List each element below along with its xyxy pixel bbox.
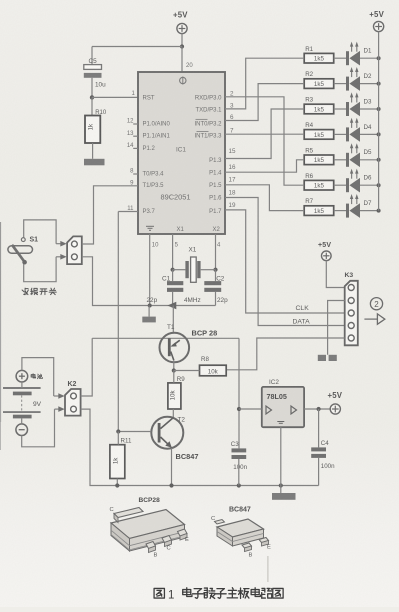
capacitor C4 100n bbox=[311, 440, 335, 470]
wire P3.1 to R1 bbox=[225, 58, 304, 109]
node rail R11 bbox=[115, 483, 119, 487]
resistor R5 1k5 bbox=[304, 147, 334, 164]
wire bbox=[318, 458, 320, 486]
resistor R3 1k5 bbox=[304, 97, 334, 114]
node bbox=[171, 268, 175, 272]
node rail D2 bbox=[377, 82, 381, 86]
package drawing BCP28 (SOT223) bbox=[110, 497, 190, 559]
resistor R2 1k5 bbox=[304, 71, 334, 88]
wire bbox=[92, 46, 182, 48]
LED D2 bbox=[346, 67, 372, 91]
wire bbox=[334, 210, 346, 212]
label battery (dian chi) bbox=[31, 374, 42, 379]
value 22p (C2) bbox=[217, 297, 228, 304]
pin 4 label bbox=[217, 243, 221, 249]
plug arrow K1 pin1 bbox=[56, 241, 67, 247]
wire pin4 bbox=[215, 234, 217, 270]
battery dashed link bbox=[21, 395, 23, 411]
wire bbox=[117, 432, 119, 445]
capacitor C1 bbox=[162, 275, 183, 292]
pin 7 label bbox=[230, 128, 234, 135]
node rail D1 bbox=[377, 56, 381, 60]
caption figure 1 bbox=[154, 588, 283, 602]
wire battery+ to K2 bbox=[22, 358, 54, 396]
wire bbox=[91, 78, 93, 98]
plug arrow K2 pin2 bbox=[55, 406, 65, 412]
wire pin10 bbox=[149, 234, 151, 306]
battery cell 1 bbox=[3, 388, 41, 395]
transistor T2 BC847 bbox=[151, 416, 198, 461]
off-page connector 2 bbox=[370, 298, 382, 310]
wire bbox=[92, 143, 94, 159]
node bbox=[172, 368, 176, 372]
resistor R4 1k5 bbox=[304, 122, 334, 139]
scan noise overlay bbox=[0, 0, 1, 1]
+5V supply symbol (top centre) bbox=[173, 10, 188, 33]
wire bbox=[91, 47, 93, 65]
wire P3.3 to R4 bbox=[225, 133, 304, 135]
wire bbox=[360, 57, 379, 59]
wire bbox=[24, 257, 56, 282]
node rail D5 bbox=[377, 158, 381, 162]
wire P1.6 DATA to K3 bbox=[225, 198, 345, 326]
wire bbox=[172, 306, 174, 334]
wire bbox=[239, 408, 262, 410]
wire bbox=[173, 360, 175, 370]
node rail IC2 bbox=[279, 483, 283, 487]
switch S1 label bbox=[30, 236, 39, 243]
battery cell 2 bbox=[3, 412, 41, 418]
+5V supply symbol (IC2 output) bbox=[328, 391, 343, 414]
node rail D6 bbox=[377, 183, 381, 187]
battery 9V label bbox=[33, 401, 42, 408]
transistor T1 BCP28 bbox=[160, 324, 218, 362]
wire P1.4 to R5 bbox=[225, 160, 304, 172]
resistor R1 1k5 bbox=[304, 46, 334, 63]
resistor R8 10k bbox=[200, 356, 227, 376]
LED D5 bbox=[346, 143, 372, 167]
LED D6 bbox=[346, 169, 372, 193]
value 4MHz (X1) bbox=[184, 297, 201, 304]
pin 20 label bbox=[186, 63, 193, 69]
op-amp, microcontroller U/IC1 89C2051 body bbox=[138, 72, 225, 234]
node bbox=[317, 407, 321, 411]
resistor R10 bbox=[85, 110, 107, 143]
pin 17 label bbox=[229, 177, 237, 184]
wire P1.5 to R7 bbox=[225, 185, 304, 211]
wire pin1 RST bbox=[92, 96, 138, 98]
wire bbox=[360, 210, 379, 212]
wire bbox=[181, 33, 183, 46]
wire pin20 bbox=[181, 47, 183, 73]
wire bbox=[334, 108, 346, 110]
wire bbox=[334, 184, 346, 186]
wire bbox=[172, 409, 174, 417]
switch S1 mercury tube bbox=[8, 246, 33, 253]
capacitor C3 100n bbox=[231, 441, 248, 471]
node rail D4 bbox=[377, 132, 381, 136]
node rail D7 bbox=[377, 209, 381, 213]
pin 2 label bbox=[230, 90, 234, 97]
wire T2 base bbox=[118, 431, 151, 433]
regulator IC2 78L05 bbox=[262, 379, 304, 427]
wire bbox=[173, 269, 186, 271]
wire T1 base row bbox=[92, 337, 239, 339]
plug arrow K2 pin1 bbox=[54, 393, 65, 399]
node bbox=[116, 429, 120, 433]
LED D1 bbox=[346, 42, 372, 66]
wire battery- to K2 bbox=[22, 409, 55, 447]
wire P3.7 to T2 base vertical bbox=[118, 212, 138, 432]
LED D7 bbox=[346, 194, 372, 218]
scan artifact line bbox=[267, 556, 269, 582]
DATA label bbox=[293, 318, 311, 325]
pin 10 label bbox=[152, 243, 159, 249]
connector K2 bbox=[65, 381, 81, 416]
pin 15 label bbox=[229, 148, 237, 155]
resistor R11 1k bbox=[110, 438, 132, 479]
wire K1 pin1 to P3.5 bbox=[82, 186, 138, 244]
wire bbox=[215, 270, 217, 281]
wire bbox=[21, 382, 23, 388]
+5V supply symbol (top right) bbox=[369, 10, 384, 31]
wire bbox=[360, 159, 379, 161]
+5V supply symbol (K3) bbox=[318, 242, 331, 260]
scan edge artifact left bbox=[0, 222, 1, 450]
wire pin5 bbox=[172, 234, 174, 270]
resistor R6 1k5 bbox=[304, 173, 334, 190]
wire bbox=[24, 220, 56, 244]
node (C1 gnd) bbox=[167, 302, 176, 310]
wire bbox=[326, 261, 344, 288]
ground (crystal row) bbox=[142, 306, 156, 323]
IC1 left pin stubs 12/13/14/8 + numbers bbox=[127, 119, 138, 212]
wire bbox=[238, 459, 240, 486]
ground (below rail) bbox=[272, 486, 296, 500]
wire bbox=[116, 479, 118, 486]
node bbox=[148, 304, 152, 308]
wire +5V LED rail bbox=[378, 32, 380, 211]
node rail D3 bbox=[377, 107, 381, 111]
battery plus terminal bbox=[16, 370, 28, 382]
wire T1 collector to IC2 bbox=[238, 338, 240, 448]
ground (K3) bbox=[318, 355, 337, 361]
wire bbox=[360, 83, 379, 85]
wire bbox=[334, 57, 346, 59]
pin 19 label bbox=[229, 202, 237, 209]
wire bbox=[174, 370, 200, 372]
wire P1.7 CLK to K3 bbox=[225, 210, 345, 313]
wire K3 gnd bbox=[328, 301, 345, 355]
off-page arrow bbox=[364, 314, 384, 324]
wire K3 pin5 to R8 bbox=[226, 338, 345, 370]
ground (below R10) bbox=[84, 159, 105, 166]
wire K2 pin1 to T1 bbox=[81, 338, 93, 396]
wire K1 pin2 to gnd row bbox=[82, 257, 216, 306]
resistor R7 1k5 bbox=[304, 198, 334, 215]
node rail C3 bbox=[237, 483, 241, 487]
wire bbox=[334, 159, 346, 161]
node junction C5/pin20 bbox=[180, 44, 184, 48]
wire P3.2 to R2 bbox=[225, 84, 304, 121]
switch S1 pivot bbox=[21, 238, 25, 242]
value 22p (C1) bbox=[147, 297, 158, 304]
pin 6 label bbox=[230, 114, 234, 121]
wire bbox=[173, 371, 175, 383]
node bbox=[237, 407, 241, 411]
battery minus terminal bbox=[16, 424, 28, 436]
wire bbox=[91, 97, 93, 115]
wire bbox=[360, 108, 379, 110]
plug arrow K1 pin2 bbox=[56, 254, 67, 260]
switch S1 lever bbox=[12, 245, 27, 265]
LED D4 bbox=[346, 118, 372, 142]
wire T2 emitter bbox=[171, 448, 173, 485]
pin 18 label bbox=[229, 189, 237, 196]
pin 5 label bbox=[175, 243, 179, 249]
wire bbox=[21, 418, 23, 424]
capacitor C5 bbox=[84, 58, 106, 89]
wire bbox=[172, 270, 174, 281]
crystal X1 bbox=[185, 247, 200, 283]
wire K2 pin2 to gnd rail bbox=[81, 409, 319, 485]
wire bbox=[201, 269, 216, 271]
pin 1 label bbox=[132, 91, 136, 97]
wire IC2 gnd bbox=[280, 427, 282, 485]
resistor R9 10k bbox=[168, 376, 185, 409]
wire P1.3 to R3 bbox=[225, 109, 304, 159]
node bbox=[213, 268, 217, 272]
node rail T2 bbox=[169, 483, 173, 487]
wire bbox=[318, 409, 320, 447]
pin 3 label bbox=[230, 103, 234, 110]
pin 16 label bbox=[229, 164, 237, 171]
node RST junction bbox=[90, 95, 94, 99]
wire P3.0 to R6 bbox=[225, 97, 304, 185]
wire bbox=[360, 133, 379, 135]
CLK label bbox=[296, 305, 310, 312]
capacitor C2 bbox=[204, 275, 225, 292]
wire bbox=[304, 408, 330, 410]
wire bbox=[360, 184, 379, 186]
label mercury switch (shui yin kai guan) bbox=[22, 288, 56, 294]
wire bbox=[172, 292, 174, 306]
wire bbox=[334, 133, 346, 135]
LED D3 bbox=[346, 92, 372, 116]
wire bbox=[334, 83, 346, 85]
connector K3 bbox=[345, 272, 358, 345]
IC1 internal labels bbox=[143, 95, 223, 233]
wire bbox=[215, 292, 217, 306]
package drawing BC847 (SOT23) bbox=[211, 507, 271, 559]
connector K1 bbox=[67, 236, 82, 264]
